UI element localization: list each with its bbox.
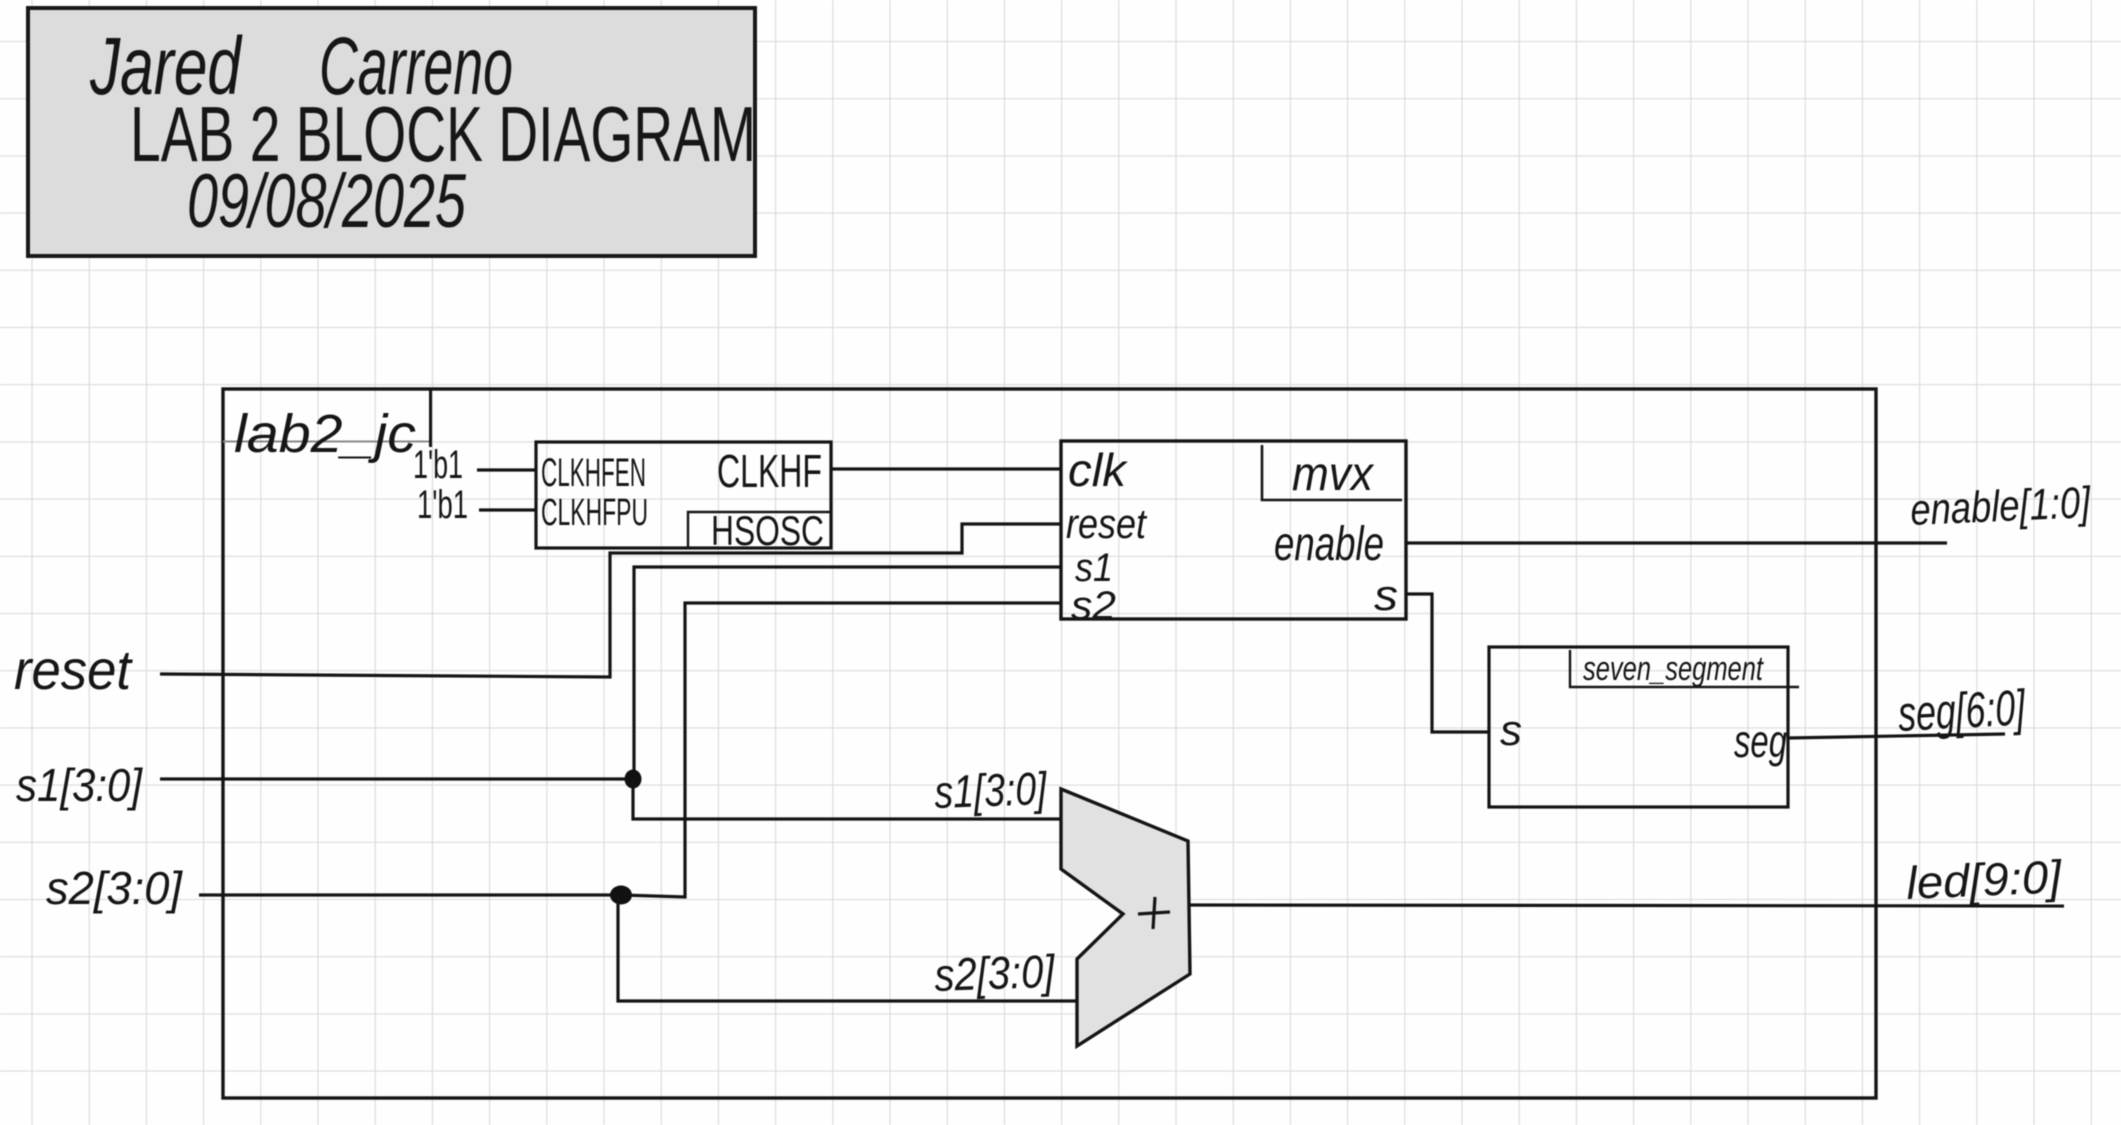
label mvx xyxy=(1262,445,1402,501)
wire s1 to adder xyxy=(633,779,1061,819)
svg-text:09/08/2025: 09/08/2025 xyxy=(187,159,467,244)
label seven_segment xyxy=(1570,650,1799,688)
svg-text:CLKHFEN: CLKHFEN xyxy=(541,451,646,495)
svg-text:reset: reset xyxy=(1066,500,1148,547)
svg-text:enable: enable xyxy=(1274,518,1384,571)
svg-text:s: s xyxy=(1374,571,1398,620)
wire reset net xyxy=(160,524,1061,677)
svg-text:1'b1: 1'b1 xyxy=(417,483,468,527)
module box lab2_jc xyxy=(223,389,1876,1098)
svg-text:mvx: mvx xyxy=(1292,448,1375,501)
oscillator HSOSC box xyxy=(536,442,831,548)
svg-text:s1[3:0]: s1[3:0] xyxy=(934,762,1049,818)
wire enable output xyxy=(1406,541,1947,544)
svg-text:s: s xyxy=(1500,706,1522,755)
wire 1'b1 to CLKHFEN xyxy=(477,468,536,471)
wire s1 net xyxy=(160,567,1061,779)
wire s2 to adder xyxy=(618,895,1077,1001)
wire CLKHF to clk xyxy=(831,467,1061,470)
block seven_segment xyxy=(1489,647,1788,807)
wire s2 net xyxy=(199,603,1061,897)
svg-text:seg: seg xyxy=(1734,715,1787,767)
svg-text:led[9:0]: led[9:0] xyxy=(1905,850,2063,909)
svg-text:s2: s2 xyxy=(1071,584,1116,628)
svg-text:HSOSC: HSOSC xyxy=(711,507,824,554)
label lab2_jc xyxy=(223,389,431,464)
svg-text:enable[1:0]: enable[1:0] xyxy=(1909,478,2092,535)
label HSOSC xyxy=(688,507,831,554)
svg-text:CLKHFPU: CLKHFPU xyxy=(541,492,648,534)
wire led output xyxy=(1190,905,2064,906)
svg-text:seven_segment: seven_segment xyxy=(1583,650,1764,688)
svg-text:clk: clk xyxy=(1068,444,1128,496)
svg-text:CLKHF: CLKHF xyxy=(717,445,822,497)
title block xyxy=(28,8,756,256)
node s1 junction xyxy=(625,770,642,789)
node s2 junction xyxy=(610,886,632,905)
block mvx xyxy=(1061,441,1406,619)
wire seg output xyxy=(1788,734,2005,738)
svg-text:seg[6:0]: seg[6:0] xyxy=(1897,679,2028,742)
wire mvx s to seven_segment xyxy=(1406,594,1489,732)
adder A1 xyxy=(1061,789,1190,1046)
wire 1'b1 to CLKHFPU xyxy=(479,508,536,511)
svg-text:lab2_jc: lab2_jc xyxy=(234,404,416,464)
svg-text:1'b1: 1'b1 xyxy=(413,443,463,487)
svg-text:s1[3:0]: s1[3:0] xyxy=(16,759,143,811)
svg-text:s2[3:0]: s2[3:0] xyxy=(934,945,1057,1001)
svg-text:reset: reset xyxy=(14,638,133,701)
svg-text:s2[3:0]: s2[3:0] xyxy=(46,862,183,914)
